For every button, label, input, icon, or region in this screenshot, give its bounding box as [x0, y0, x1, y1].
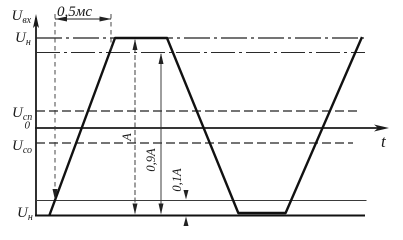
dimension A line	[134, 40, 136, 213]
dimension 0,5ms right arrowhead	[100, 17, 112, 22]
axis U_vx vertical	[35, 18, 37, 216]
axis U_vx arrowhead	[33, 14, 39, 28]
svg-text:0,9A: 0,9A	[144, 148, 158, 172]
dimension 0,9A line	[160, 54, 162, 213]
waveform trapezoidal pulse	[50, 37, 363, 215]
svg-text:0,1A: 0,1A	[170, 168, 184, 192]
svg-text:A: A	[120, 133, 134, 142]
dimension A top arrowhead	[133, 39, 138, 50]
dimension 0,5ms left arrowhead	[55, 17, 67, 22]
level line 0.1A thin solid	[36, 200, 367, 202]
level line U_sp dashed	[36, 110, 361, 112]
axis t arrowhead	[374, 125, 389, 132]
dimension 0,9A bottom arrowhead	[159, 204, 164, 215]
extension line left x=55 dashed	[54, 14, 56, 194]
level line U_n bottom solid	[35, 215, 365, 217]
svg-text:0,5мс: 0,5мс	[57, 4, 92, 20]
level line U_so dashed	[36, 142, 353, 144]
dimension 0,1A lower arrow	[185, 220, 187, 226]
dimension 0,5ms line	[55, 18, 111, 20]
level line 0.9A dash-dot	[36, 52, 365, 54]
level line U_n top dash-dot	[36, 37, 364, 39]
dimension 0,9A top arrowhead	[159, 53, 164, 64]
dimension 0,1A upper arrow	[185, 190, 187, 196]
svg-text:0: 0	[25, 120, 31, 132]
axis t horizontal	[35, 127, 382, 129]
dimension A bottom arrowhead	[133, 204, 138, 215]
extension line right x=111 dashed	[110, 14, 112, 50]
extension left down arrowhead at 0.1A crossing	[53, 189, 58, 200]
